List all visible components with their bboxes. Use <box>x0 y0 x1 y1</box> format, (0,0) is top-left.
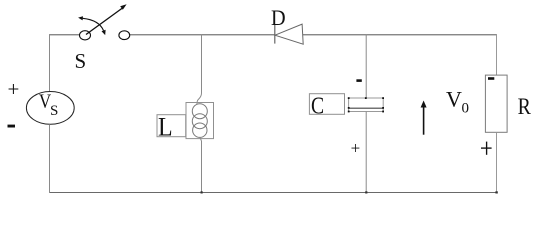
svg-text:+: + <box>8 77 20 101</box>
svg-text:L: L <box>158 113 173 141</box>
svg-text:+: + <box>351 138 361 157</box>
svg-text:S: S <box>50 103 58 119</box>
svg-text:R: R <box>518 94 532 120</box>
svg-text:S: S <box>75 49 87 73</box>
svg-text:V: V <box>446 86 462 111</box>
svg-text:D: D <box>271 5 286 30</box>
svg-text:0: 0 <box>462 100 470 116</box>
svg-text:C: C <box>311 92 324 119</box>
